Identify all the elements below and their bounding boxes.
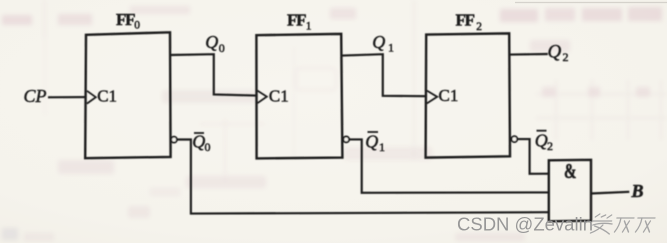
svg-text:C1: C1 (439, 86, 459, 105)
clock triangle FF0 (87, 91, 96, 104)
svg-text:Q: Q (192, 132, 205, 152)
svg-text:Q: Q (548, 42, 562, 63)
flip-flop FF2 box (426, 33, 510, 157)
label FF1 (287, 10, 312, 32)
svg-text:Q: Q (535, 130, 548, 150)
node Q0 label (205, 32, 225, 55)
svg-text:1: 1 (388, 41, 394, 55)
svg-text:CP: CP (24, 86, 47, 106)
svg-text:FF: FF (456, 11, 475, 30)
wire CP to FF0 clock (48, 96, 86, 98)
label FF0 (116, 10, 140, 32)
svg-text:FF: FF (116, 10, 135, 29)
node Q-bar2 label (535, 130, 553, 153)
wire Q1 from FF1 to FF2 clock (342, 54, 426, 96)
svg-text:C1: C1 (269, 87, 289, 106)
label FF2 (456, 11, 483, 34)
flip-flop FF1 box (256, 34, 342, 158)
inversion bubble Q-bar1 (343, 137, 349, 143)
svg-text:0: 0 (134, 19, 140, 31)
node Q-bar1 label (365, 132, 385, 154)
svg-text:0: 0 (219, 41, 225, 55)
char hui 1 (614, 218, 633, 232)
node Q2 label (548, 42, 569, 65)
bleed row right of FF1 (344, 147, 432, 160)
bleed bottom-left mark (2, 228, 54, 241)
bleed gray line top edge (515, 2, 667, 4)
char hui 2 (635, 218, 654, 232)
svg-text:CSDN @Zevalin: CSDN @Zevalin (457, 214, 593, 235)
inversion bubble Q-bar0 (171, 137, 177, 143)
svg-text:Q: Q (372, 32, 385, 52)
svg-text:Q: Q (205, 32, 218, 52)
wire Q2 output (510, 53, 548, 56)
svg-text:FF: FF (287, 10, 306, 29)
char ai (590, 214, 614, 234)
bleed vertical line B (293, 46, 295, 160)
svg-text:1: 1 (379, 140, 385, 154)
svg-text:Q: Q (365, 132, 378, 152)
svg-text:2: 2 (563, 50, 569, 64)
node Q1 label (372, 32, 394, 55)
bleed marks inside FF1 (200, 68, 336, 180)
inversion bubble Q-bar2 (512, 136, 518, 142)
svg-text:0: 0 (205, 140, 211, 154)
bleed smudge mid (reversed digits) (162, 90, 257, 103)
svg-text:B: B (631, 181, 644, 201)
bleed grid right side (536, 80, 667, 140)
bleed smudge lower-middle text (150, 176, 266, 196)
bleed marks left-mid (58, 160, 150, 218)
wire Q-bar0 to AND gate (177, 140, 549, 214)
svg-text:2: 2 (476, 21, 482, 33)
node Q-bar0 label (192, 132, 210, 154)
svg-text:1: 1 (306, 21, 312, 33)
watermark Chinese characters (hand-drawn) (590, 214, 655, 234)
bleed smudge top-left (2, 6, 662, 25)
svg-text:2: 2 (547, 139, 553, 153)
svg-text:&: & (564, 159, 577, 183)
flip-flop FF0 box (85, 32, 170, 158)
wire B output (591, 192, 629, 194)
wire Q-bar1 to AND gate (349, 139, 549, 192)
clock triangle FF2 (427, 91, 437, 104)
bleed pink mark below top-right row (530, 40, 570, 52)
wire Q-bar2 to AND gate (517, 139, 549, 174)
bleed under watermark (455, 233, 525, 241)
bleed vertical line A (413, 0, 415, 160)
AND gate U1 box (549, 160, 591, 222)
clock triangle FF1 (257, 91, 266, 104)
bleed vertical line top-left (44, 0, 46, 37)
wire Q0 from FF0 to FF1 clock (171, 54, 257, 95)
svg-text:C1: C1 (97, 86, 117, 105)
